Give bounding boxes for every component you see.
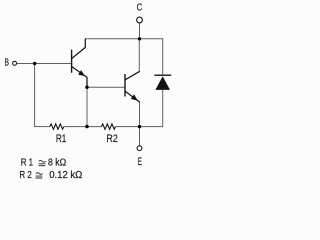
svg-text:C: C [137,3,143,14]
transistor Q2 [125,72,140,102]
node: R1-R2 junction dot [85,125,88,128]
wire: diode branch upper vertical (diode cathode up to top rail) [162,38,164,75]
wire: bottom rail right segment (R2 to diode branch corner) [115,126,163,128]
wire: bottom rail left segment (B node to R1) [34,126,50,128]
wire: diode branch lower vertical (rail up to diode anode) [162,90,164,128]
wire: Q1 emitter node down to R1-R2 junction [86,87,88,126]
diode D1 triangle [155,76,170,90]
svg-text:R 2: R 2 [19,170,32,181]
wire: Q2 collector vertical to top rail [138,39,140,72]
wire: Q2 emitter vertical down to bottom rail [139,102,141,127]
diode D1 cathode bar [154,74,171,76]
node: emitter rail junction dot [138,125,141,128]
svg-text:R2: R2 [106,133,117,145]
wire: C terminal drop to top rail [139,23,141,39]
transistor Q1 [72,39,87,87]
svg-text:8 kΩ: 8 kΩ [48,158,67,169]
wire: B node down to bottom rail [34,64,36,127]
svg-text:E: E [138,156,142,168]
svg-text:B: B [5,58,9,69]
terminal E circle [137,146,142,151]
terminal B circle [13,61,17,65]
terminal C circle [137,17,143,23]
resistor R2 [101,124,115,129]
node: collector rail junction dot [138,37,141,40]
wire: top rail [85,38,163,40]
svg-text:R1: R1 [56,133,66,145]
wire: B terminal to Q1 base [17,63,72,65]
wire: Q1 emitter node to Q2 base [87,86,125,88]
resistor R1 [50,124,64,129]
transistor Q2 emitter arrow [131,94,138,100]
node: B input junction dot [33,62,36,65]
transistor Q1 emitter arrow [78,70,85,76]
wire: E terminal lead [139,127,141,146]
svg-text:0.12 kΩ: 0.12 kΩ [49,170,82,181]
svg-text:R 1: R 1 [21,158,34,169]
node: Q1 emitter / Q2 base junction dot [85,86,88,89]
wire: bottom rail middle segment (R1 to R2) [64,126,102,128]
